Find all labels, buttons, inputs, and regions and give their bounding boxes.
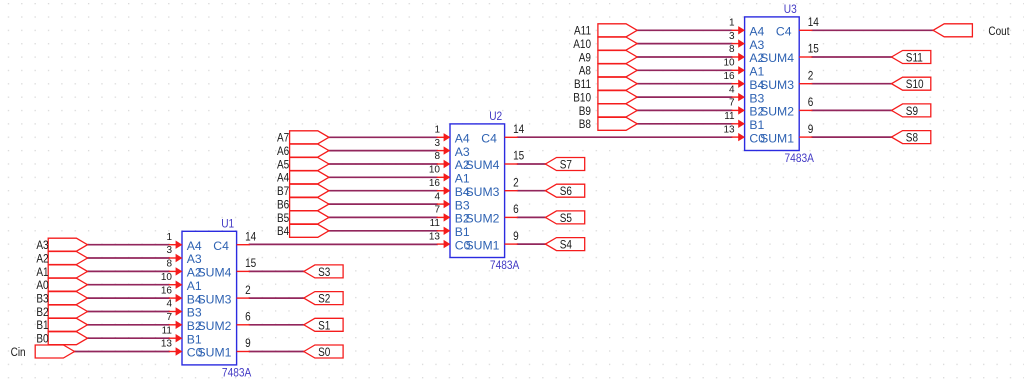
svg-text:10: 10 — [723, 58, 735, 69]
U3 pin stubs and arrows — [731, 26, 812, 141]
U1 left pin numbers 1,3,8,10,16,4,7,11,13 — [161, 232, 173, 350]
wire U2 SUM to port S6 — [517, 190, 547, 192]
svg-text:S10: S10 — [906, 78, 924, 91]
svg-text:A7: A7 — [277, 132, 289, 145]
svg-text:6: 6 — [245, 311, 251, 324]
svg-text:1: 1 — [166, 232, 172, 243]
wire U2 SUM to port S4 — [517, 243, 547, 245]
wire B2 to U1 pin 4 — [87, 311, 170, 313]
output connector S2 — [304, 292, 343, 306]
wire U3 C4 to Cout port — [811, 29, 934, 31]
wire B7 to U2 pin 16 — [328, 190, 438, 192]
svg-text:SUM2: SUM2 — [198, 319, 232, 333]
wire A6 to U2 pin 3 — [328, 150, 438, 152]
svg-text:4: 4 — [729, 84, 735, 95]
svg-text:14: 14 — [808, 16, 819, 29]
svg-text:7: 7 — [434, 205, 440, 216]
input connector B2 — [36, 305, 87, 319]
svg-text:9: 9 — [513, 230, 519, 243]
svg-text:16: 16 — [161, 285, 173, 296]
svg-text:16: 16 — [723, 71, 735, 82]
svg-text:13: 13 — [161, 339, 173, 350]
svg-text:A3: A3 — [455, 145, 470, 159]
svg-text:A4: A4 — [749, 25, 764, 39]
svg-text:A10: A10 — [573, 38, 591, 51]
svg-text:A3: A3 — [187, 252, 202, 266]
wire B9 to U3 pin 7 — [636, 109, 732, 111]
svg-text:15: 15 — [245, 257, 256, 270]
svg-text:SUM4: SUM4 — [760, 51, 794, 65]
svg-text:U1: U1 — [221, 217, 234, 230]
svg-text:B11: B11 — [574, 78, 591, 91]
svg-text:10: 10 — [429, 165, 441, 176]
svg-text:U3: U3 — [784, 3, 797, 16]
svg-text:S7: S7 — [560, 159, 572, 172]
svg-text:7: 7 — [729, 98, 735, 109]
input connector B11 — [574, 77, 637, 91]
wire B6 to U2 pin 4 — [328, 203, 438, 205]
U1 right pin numbers 14,15,2,6,9 — [245, 231, 256, 351]
input connector A8 — [579, 64, 637, 78]
svg-text:SUM1: SUM1 — [760, 131, 794, 145]
svg-text:3: 3 — [729, 31, 735, 42]
svg-text:3: 3 — [166, 245, 172, 256]
svg-text:B1: B1 — [455, 225, 470, 239]
svg-text:S8: S8 — [906, 132, 918, 145]
svg-text:C4: C4 — [481, 132, 497, 146]
wire U2 C4 to U3 C0 (carry) — [517, 136, 733, 138]
input connector A5 — [277, 158, 329, 172]
svg-text:4: 4 — [434, 191, 440, 202]
svg-text:4: 4 — [166, 299, 172, 310]
input connector A4 — [277, 171, 329, 185]
svg-text:11: 11 — [162, 325, 173, 336]
wire B5 to U2 pin 7 — [328, 216, 438, 218]
output connector S0 — [304, 345, 343, 359]
input connector B0 — [36, 332, 87, 346]
svg-text:6: 6 — [513, 203, 519, 216]
svg-text:B10: B10 — [573, 92, 591, 105]
svg-text:8: 8 — [434, 151, 440, 162]
input connector A0 — [36, 278, 87, 292]
svg-text:A1: A1 — [455, 172, 470, 186]
svg-text:7483A: 7483A — [490, 259, 520, 272]
svg-text:S0: S0 — [318, 346, 330, 359]
wire A0 to U1 pin 10 — [87, 284, 170, 286]
svg-text:B1: B1 — [36, 319, 48, 332]
svg-text:8: 8 — [729, 44, 735, 55]
svg-text:13: 13 — [429, 231, 441, 242]
output connector Cout — [933, 24, 972, 37]
svg-text:A3: A3 — [749, 38, 764, 52]
svg-text:S6: S6 — [560, 185, 572, 198]
output connector S4 — [545, 238, 584, 252]
U3 pin names — [749, 25, 794, 146]
IC U3 7483A body — [745, 17, 800, 151]
wire Cin to U1 pin 13 — [74, 351, 170, 353]
wire U3 SUM to port S11 — [811, 56, 892, 58]
svg-text:A1: A1 — [187, 279, 202, 293]
output connector S8 — [892, 131, 931, 145]
input connector B7 — [277, 184, 329, 198]
input connector A10 — [573, 37, 637, 51]
svg-text:SUM2: SUM2 — [466, 212, 500, 226]
svg-text:Cin: Cin — [11, 346, 26, 359]
svg-text:B3: B3 — [749, 91, 764, 105]
svg-text:SUM4: SUM4 — [198, 266, 232, 280]
svg-text:SUM3: SUM3 — [466, 185, 500, 199]
wire U3 SUM to port S9 — [811, 109, 892, 111]
svg-text:B9: B9 — [579, 105, 591, 118]
U1 pin names — [187, 239, 232, 360]
IC U1 7483A body — [182, 231, 237, 365]
wire B4 to U2 pin 11 — [328, 230, 438, 232]
svg-text:SUM4: SUM4 — [466, 158, 500, 172]
svg-text:2: 2 — [245, 284, 251, 297]
svg-text:S1: S1 — [318, 319, 330, 332]
wire U2 SUM to port S5 — [517, 216, 547, 218]
input connector A1 — [36, 265, 87, 279]
output connector S10 — [892, 77, 931, 91]
svg-text:A9: A9 — [579, 52, 591, 65]
svg-text:B3: B3 — [36, 293, 48, 306]
svg-text:2: 2 — [808, 70, 814, 83]
svg-text:16: 16 — [429, 178, 441, 189]
svg-text:A1: A1 — [36, 266, 48, 279]
svg-text:B4: B4 — [277, 225, 289, 238]
svg-text:SUM2: SUM2 — [760, 105, 794, 119]
wire B11 to U3 pin 16 — [636, 83, 732, 85]
svg-text:A3: A3 — [36, 239, 48, 252]
svg-text:B1: B1 — [187, 332, 202, 346]
output connector S9 — [892, 104, 931, 118]
svg-text:Cout: Cout — [988, 25, 1010, 38]
svg-text:SUM3: SUM3 — [760, 78, 794, 92]
svg-text:S9: S9 — [906, 105, 918, 118]
svg-text:1: 1 — [434, 125, 440, 136]
input connector B4 — [277, 224, 329, 238]
svg-text:A4: A4 — [187, 239, 202, 253]
svg-text:11: 11 — [724, 111, 735, 122]
svg-text:A6: A6 — [277, 145, 289, 158]
svg-text:7483A: 7483A — [785, 152, 815, 165]
U3 left pin numbers 1,3,8,10,16,4,7,11,13 — [723, 18, 735, 136]
svg-text:B6: B6 — [277, 199, 289, 212]
svg-text:2: 2 — [513, 177, 519, 190]
svg-text:6: 6 — [808, 96, 814, 109]
U3 right pin numbers 14,15,2,6,9 — [808, 16, 819, 136]
wire U1 SUM to port S3 — [249, 270, 305, 272]
svg-text:A0: A0 — [36, 279, 48, 292]
output connector S3 — [304, 265, 343, 279]
input connector B3 — [36, 292, 87, 306]
U2 pin stubs and arrows — [437, 133, 518, 248]
input connector B1 — [36, 318, 87, 332]
svg-text:7: 7 — [166, 312, 172, 323]
wire U1 SUM to port S2 — [249, 297, 305, 299]
input connector A3 — [36, 238, 87, 252]
svg-text:SUM1: SUM1 — [198, 346, 232, 360]
input connector B8 — [579, 117, 637, 131]
wire A1 to U1 pin 8 — [87, 270, 170, 272]
wire A9 to U3 pin 8 — [636, 56, 732, 58]
svg-text:B3: B3 — [187, 306, 202, 320]
wire B3 to U1 pin 16 — [87, 297, 170, 299]
svg-text:11: 11 — [430, 218, 441, 229]
svg-text:14: 14 — [513, 123, 524, 136]
input connector A2 — [36, 252, 87, 266]
input connector A6 — [277, 144, 329, 158]
svg-text:SUM1: SUM1 — [466, 238, 500, 252]
wire U1 SUM to port S1 — [249, 324, 305, 326]
svg-text:A11: A11 — [574, 25, 591, 38]
svg-text:A5: A5 — [277, 159, 289, 172]
input connector B5 — [277, 211, 329, 225]
wire A7 to U2 pin 1 — [328, 136, 438, 138]
input connector B6 — [277, 198, 329, 212]
U2 left pin numbers 1,3,8,10,16,4,7,11,13 — [429, 125, 441, 243]
svg-text:8: 8 — [166, 259, 172, 270]
wire A3 to U1 pin 1 — [87, 244, 170, 246]
svg-text:C4: C4 — [213, 239, 229, 253]
svg-text:14: 14 — [245, 231, 256, 244]
svg-text:B0: B0 — [36, 333, 48, 346]
svg-text:B8: B8 — [579, 118, 591, 131]
svg-text:A8: A8 — [579, 65, 591, 78]
svg-text:C4: C4 — [776, 25, 792, 39]
svg-text:15: 15 — [513, 150, 524, 163]
wire B1 to U1 pin 7 — [87, 324, 170, 326]
svg-text:3: 3 — [434, 138, 440, 149]
output connector S6 — [545, 184, 584, 198]
wire U3 SUM to port S8 — [811, 136, 892, 138]
IC U2 7483A body — [450, 124, 505, 258]
input connector A11 — [574, 24, 637, 38]
wire B8 to U3 pin 11 — [636, 123, 732, 125]
svg-text:A2: A2 — [36, 253, 48, 266]
wire U1 SUM to port S0 — [249, 351, 305, 353]
svg-text:A4: A4 — [277, 172, 289, 185]
svg-text:7483A: 7483A — [222, 367, 252, 380]
svg-text:10: 10 — [161, 272, 173, 283]
wire A8 to U3 pin 10 — [636, 69, 732, 71]
wire U2 SUM to port S7 — [517, 163, 547, 165]
U2 pin names — [455, 132, 500, 253]
svg-text:S3: S3 — [318, 266, 330, 279]
svg-text:A1: A1 — [749, 65, 764, 79]
input connector A7 — [277, 131, 329, 145]
svg-text:B5: B5 — [277, 212, 289, 225]
svg-text:1: 1 — [729, 18, 735, 29]
svg-text:A4: A4 — [455, 132, 470, 146]
svg-text:9: 9 — [808, 123, 814, 136]
output connector S5 — [545, 211, 584, 225]
svg-text:B1: B1 — [749, 118, 764, 132]
svg-text:B7: B7 — [277, 185, 289, 198]
wire A2 to U1 pin 3 — [87, 257, 170, 259]
svg-text:S4: S4 — [560, 239, 572, 252]
wire A4 to U2 pin 10 — [328, 176, 438, 178]
input connector A9 — [579, 51, 637, 65]
input connector Cin — [11, 345, 75, 359]
svg-text:15: 15 — [808, 43, 819, 56]
svg-text:9: 9 — [245, 337, 251, 350]
output connector S7 — [545, 158, 584, 172]
input connector B9 — [579, 104, 637, 118]
wire U3 SUM to port S10 — [811, 83, 892, 85]
svg-text:B3: B3 — [455, 198, 470, 212]
svg-text:S2: S2 — [318, 293, 330, 306]
svg-text:U2: U2 — [489, 110, 502, 123]
wire B10 to U3 pin 4 — [636, 96, 732, 98]
svg-text:B2: B2 — [36, 306, 48, 319]
svg-text:SUM3: SUM3 — [198, 292, 232, 306]
output connector S1 — [304, 318, 343, 332]
svg-text:S11: S11 — [906, 52, 923, 65]
wire U1 C4 to U2 C0 (carry) — [249, 243, 438, 245]
U1 pin stubs and arrows — [169, 241, 250, 356]
wire A10 to U3 pin 3 — [636, 43, 732, 45]
svg-text:S5: S5 — [560, 212, 572, 225]
wire A5 to U2 pin 8 — [328, 163, 438, 165]
output connector S11 — [892, 51, 931, 65]
U2 right pin numbers 14,15,2,6,9 — [513, 123, 524, 243]
wire A11 to U3 pin 1 — [636, 29, 732, 31]
svg-text:13: 13 — [723, 124, 735, 135]
input connector B10 — [573, 91, 637, 105]
wire B0 to U1 pin 11 — [87, 337, 170, 339]
